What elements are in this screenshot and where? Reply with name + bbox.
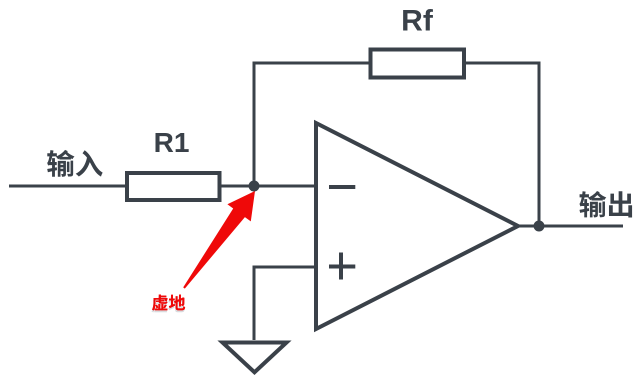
label input 输入 [47,150,103,177]
wire input segment to inverting input [9,185,316,188]
resistor Rf [371,50,465,78]
svg-text:Rf: Rf [401,5,434,38]
label 虚地 virtual ground [152,295,186,313]
wire non-inverting input [254,267,316,340]
op-amp U1 [316,123,518,329]
label output 输出 [579,191,632,217]
wire feedback left vertical [254,63,371,186]
svg-text:R1: R1 [154,127,190,158]
ground [223,343,287,373]
pin label minus [329,185,355,189]
wire feedback right vertical [464,63,539,226]
wire output [518,225,623,228]
annotation arrow virtual ground pointer [183,191,255,289]
pin label plus [329,253,355,280]
node A virtual-ground junction [249,181,260,192]
resistor R1 [127,173,220,200]
node output junction [534,221,545,232]
